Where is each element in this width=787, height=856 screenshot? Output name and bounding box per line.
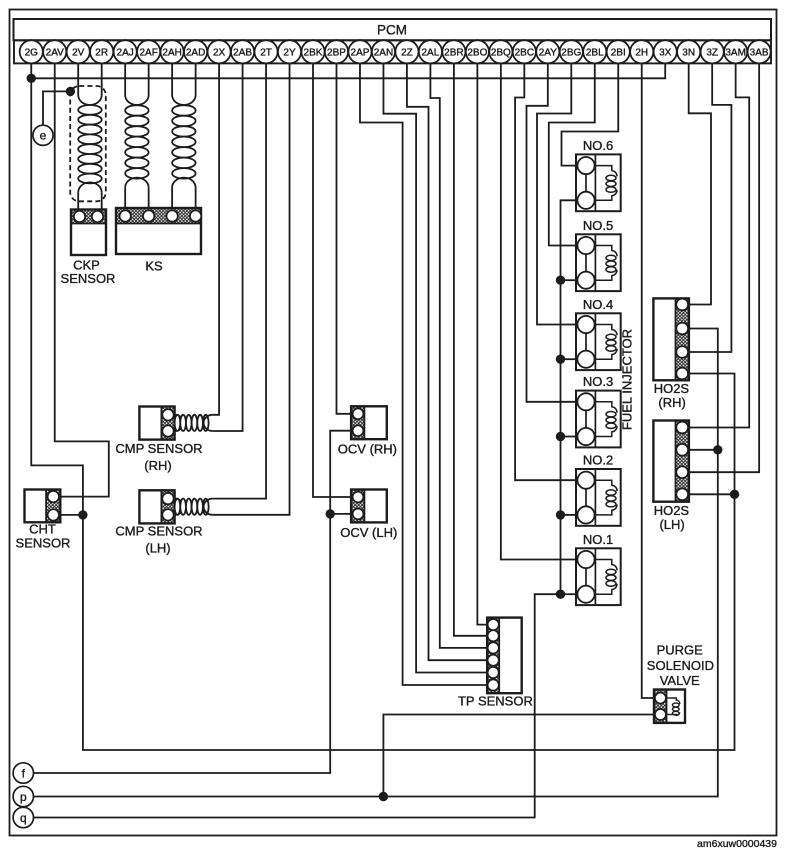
wire 2BG to NO.4	[537, 63, 576, 324]
pin 2AB	[231, 40, 254, 63]
svg-text:2AV: 2AV	[46, 47, 64, 58]
svg-text:2Y: 2Y	[283, 47, 296, 58]
HO2S RH connector	[676, 298, 689, 380]
wire 2AV to CHT pin1	[55, 63, 109, 496]
wire 2BC to NO.2	[515, 63, 576, 480]
wire 3Z to HO2S RH pin3	[689, 63, 732, 352]
pin 2H	[630, 40, 653, 63]
junction dot shield/e	[66, 87, 75, 96]
wire CMP RH pin2 to 2AB	[213, 63, 243, 431]
fuel injector NO.6	[576, 154, 621, 211]
svg-text:2BQ: 2BQ	[491, 47, 511, 58]
HO2S LH connector	[676, 421, 689, 502]
svg-text:3N: 3N	[682, 47, 695, 58]
CMP LH twisted pair	[175, 499, 184, 515]
pin 2AH	[161, 40, 184, 63]
svg-text:PURGE: PURGE	[657, 643, 704, 658]
wire CMP LH pin1 to 2T	[213, 63, 266, 498]
svg-text:CMP SENSOR: CMP SENSOR	[115, 524, 202, 539]
wire purge low branch	[383, 715, 654, 797]
PCM connector row band	[14, 40, 771, 63]
pin 2BI	[607, 40, 630, 63]
svg-text:OCV (RH): OCV (RH)	[338, 441, 397, 456]
svg-text:(RH): (RH)	[144, 458, 171, 473]
svg-text:SOLENOID: SOLENOID	[647, 658, 714, 673]
wire NO.3 low pin	[561, 436, 577, 438]
wire OCV pin2 net to f	[33, 431, 351, 773]
wire HO2S pin2 net to p	[34, 329, 718, 797]
svg-text:SENSOR: SENSOR	[16, 535, 71, 550]
CKP sensor connector	[71, 210, 106, 224]
pin 2BC	[513, 40, 536, 63]
wire 2Z to TP pin4	[407, 63, 487, 660]
svg-text:2AN: 2AN	[374, 47, 393, 58]
TP sensor connector	[487, 618, 499, 694]
svg-text:2BL: 2BL	[586, 47, 604, 58]
svg-text:3AM: 3AM	[725, 47, 746, 58]
pin 2Y	[278, 40, 301, 63]
fuel injector NO.2	[576, 469, 621, 526]
wire 2AL to TP pin3	[430, 63, 487, 648]
fuel injector NO.3	[576, 391, 621, 448]
svg-text:NO.3: NO.3	[583, 374, 613, 389]
svg-text:2AD: 2AD	[186, 47, 205, 58]
svg-text:NO.1: NO.1	[583, 532, 613, 547]
pin 2AY	[536, 40, 559, 63]
svg-text:(RH): (RH)	[658, 395, 685, 410]
pin 2G	[20, 40, 43, 63]
CKP shielded twisted pair cable	[77, 63, 79, 95]
wire 2BL to NO.5	[549, 63, 595, 245]
wire NO.4 low pin	[561, 358, 577, 360]
junction dot NO.3 low	[556, 432, 565, 441]
svg-text:HO2S: HO2S	[654, 381, 690, 396]
svg-text:PCM: PCM	[377, 23, 407, 38]
pin 2BR	[442, 40, 465, 63]
pin 2BG	[560, 40, 583, 63]
svg-text:2BG: 2BG	[561, 47, 581, 58]
pin 2BK	[301, 40, 324, 63]
svg-text:VALVE: VALVE	[660, 673, 700, 688]
pin 2AD	[184, 40, 207, 63]
CMP RH twisted pair	[175, 415, 184, 431]
pin 3Z	[701, 40, 724, 63]
wire HO2S LH pin2 to net	[689, 449, 718, 451]
CMP sensor RH connector	[161, 407, 174, 440]
junction dot NO.4 low	[556, 355, 565, 364]
OCV LH connector	[351, 490, 364, 523]
wire 2AN to TP pin5	[383, 63, 487, 672]
svg-text:TP SENSOR: TP SENSOR	[458, 694, 533, 709]
pin 2T	[254, 40, 277, 63]
svg-text:2AJ: 2AJ	[117, 47, 134, 58]
wire OCV RH pin1 to 2BP	[336, 63, 351, 413]
svg-text:2BC: 2BC	[515, 47, 534, 58]
wire 3AM to HO2S LH pin1	[689, 63, 749, 427]
wire injector common to q	[34, 200, 577, 817]
svg-text:p: p	[20, 790, 27, 804]
svg-text:3X: 3X	[659, 47, 672, 58]
svg-text:2H: 2H	[635, 47, 648, 58]
svg-text:2V: 2V	[72, 47, 85, 58]
wire 2BI to NO.6	[562, 63, 619, 165]
svg-text:NO.6: NO.6	[583, 138, 613, 153]
purge coil	[672, 698, 680, 704]
svg-text:(LH): (LH)	[659, 517, 684, 532]
wire NO.2 low pin	[561, 514, 577, 516]
KS twisted pair 1	[124, 63, 126, 95]
CHT sensor	[46, 490, 60, 523]
wire 2BR to TP pin2	[454, 63, 487, 635]
fuel injector NO.5	[576, 234, 621, 291]
wire OCV LH pin2 to net	[330, 513, 351, 515]
svg-text:2AB: 2AB	[233, 47, 252, 58]
pin 2Z	[395, 40, 418, 63]
pin 3X	[654, 40, 677, 63]
fuel injector NO.1	[576, 548, 621, 605]
CKP shield (dashed)	[70, 86, 106, 201]
wire 2AY to NO.3	[527, 63, 577, 401]
svg-text:2AY: 2AY	[539, 47, 557, 58]
svg-text:2AP: 2AP	[351, 47, 370, 58]
svg-text:2G: 2G	[25, 47, 39, 58]
wire 2H to purge pin1	[642, 63, 654, 698]
junction dot 2G	[27, 74, 36, 83]
wire OCV LH pin1 to 2BK	[313, 63, 351, 497]
pin 2AJ	[114, 40, 137, 63]
PCM box	[14, 19, 772, 40]
svg-text:2AL: 2AL	[422, 47, 440, 58]
CMP sensor LH connector	[161, 490, 174, 523]
svg-text:2BR: 2BR	[444, 47, 463, 58]
svg-text:3Z: 3Z	[706, 47, 718, 58]
junction dot CHT low ref	[78, 510, 87, 519]
junction dot HO2S LH pin2	[713, 445, 722, 454]
wire CHT pin2 to chain	[60, 514, 83, 516]
pin 2AV	[43, 40, 66, 63]
pin 2R	[90, 40, 113, 63]
svg-text:CMP SENSOR: CMP SENSOR	[115, 441, 202, 456]
wire 2G to 3X (sensor return)	[31, 63, 665, 78]
connector e	[33, 125, 53, 145]
junction dot HO2S LH pin4	[730, 490, 739, 499]
svg-text:NO.2: NO.2	[583, 453, 613, 468]
pin 3N	[677, 40, 700, 63]
pin 2BO	[466, 40, 489, 63]
junction dot purge branch	[379, 792, 388, 801]
connector p	[13, 786, 33, 806]
svg-text:e: e	[40, 129, 47, 143]
svg-text:HO2S: HO2S	[654, 503, 690, 518]
wire 3AB to HO2S LH pin3	[689, 63, 759, 472]
wire 2BO to TP pin1	[477, 63, 487, 624]
svg-text:NO.4: NO.4	[583, 297, 613, 312]
OCV RH connector	[351, 406, 364, 439]
junction dot OCV LH pin2	[326, 509, 335, 518]
wire CMP RH pin1 to 2X	[213, 63, 219, 414]
svg-text:2T: 2T	[260, 47, 272, 58]
junction dot NO.5 low	[556, 276, 565, 285]
wire NO.5 low pin	[561, 279, 577, 281]
wire NO.1 low pin	[561, 593, 577, 595]
svg-text:2R: 2R	[95, 47, 108, 58]
svg-text:2BK: 2BK	[304, 47, 323, 58]
pin 3AM	[724, 40, 747, 63]
svg-text:OCV (LH): OCV (LH)	[340, 525, 397, 540]
svg-text:2BP: 2BP	[327, 47, 346, 58]
svg-text:2AF: 2AF	[139, 47, 157, 58]
wire shield to e	[43, 91, 70, 125]
pin 2V	[67, 40, 90, 63]
svg-text:KS: KS	[145, 259, 163, 274]
svg-text:q: q	[20, 811, 27, 825]
wire 3N to HO2S RH pin1	[689, 63, 711, 304]
wire CMP LH pin2 to 2Y	[213, 63, 290, 514]
junction dot NO.1 low	[556, 590, 565, 599]
svg-text:(LH): (LH)	[145, 541, 170, 556]
purge solenoid valve connector	[654, 690, 667, 723]
svg-text:FUEL INJECTOR: FUEL INJECTOR	[619, 329, 634, 430]
svg-text:SENSOR: SENSOR	[61, 271, 116, 286]
svg-text:2AH: 2AH	[162, 47, 181, 58]
wire HO2S LH pin4 to chain	[689, 493, 735, 495]
wire 2BQ to NO.1	[501, 63, 576, 559]
pin 2AF	[137, 40, 160, 63]
pin 2AN	[372, 40, 395, 63]
connector f	[13, 763, 33, 783]
pin 2AL	[419, 40, 442, 63]
KS twisted pair 2	[171, 63, 173, 95]
pin 3AB	[748, 40, 771, 63]
pin 2AP	[348, 40, 371, 63]
connector q	[13, 807, 33, 827]
svg-text:2BO: 2BO	[467, 47, 487, 58]
svg-text:am6xuw0000439: am6xuw0000439	[697, 838, 777, 850]
wire 2AP to TP pin6	[360, 63, 487, 685]
pin 2BL	[583, 40, 606, 63]
svg-text:3AB: 3AB	[750, 47, 769, 58]
svg-text:NO.5: NO.5	[583, 218, 613, 233]
pin 2BP	[325, 40, 348, 63]
KS connector	[116, 208, 201, 224]
fuel injector NO.4	[576, 313, 621, 370]
junction dot NO.2 low	[556, 510, 565, 519]
svg-text:2BI: 2BI	[611, 47, 626, 58]
wire 2G ground chain	[31, 63, 734, 750]
pin 2X	[207, 40, 230, 63]
pin 2BQ	[489, 40, 512, 63]
svg-text:2X: 2X	[213, 47, 226, 58]
svg-text:2Z: 2Z	[401, 47, 413, 58]
